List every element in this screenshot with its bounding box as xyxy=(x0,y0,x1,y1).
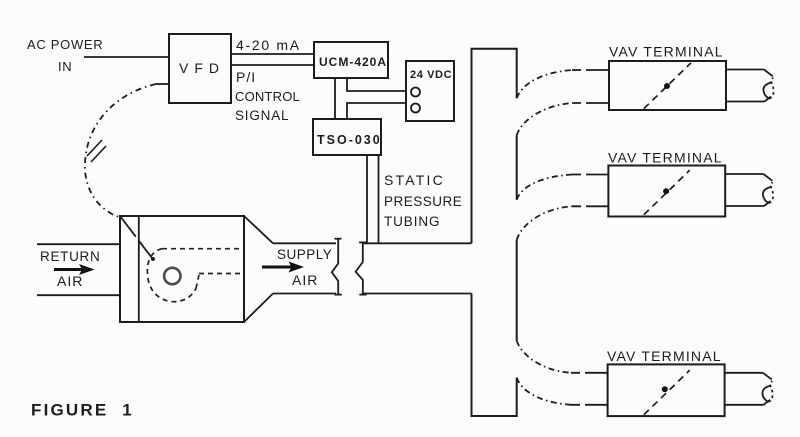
UCM-420A unit control module xyxy=(314,42,388,78)
dashed drive shaft line into air handler xyxy=(120,216,152,258)
VAV terminal 1 damper xyxy=(644,63,691,109)
svg-text:VAV TERMINAL: VAV TERMINAL xyxy=(609,44,724,60)
VAV terminal 2 outlet duct xyxy=(725,174,773,206)
svg-text:TSO-030: TSO-030 xyxy=(317,133,382,147)
svg-text:VAV TERMINAL: VAV TERMINAL xyxy=(607,348,722,364)
label: SUPPLY AIR xyxy=(277,247,332,288)
VAV terminal 3 outlet duct xyxy=(725,373,773,405)
svg-text:RETURN: RETURN xyxy=(40,249,100,264)
branch duct 2 bottom curve xyxy=(517,206,609,240)
wire: VFD to UCM 4-20 mA signal xyxy=(231,53,314,55)
wire: VFD control stub xyxy=(156,83,169,85)
svg-text:PRESSURE: PRESSURE xyxy=(384,194,462,209)
svg-text:CONTROL: CONTROL xyxy=(235,89,300,104)
return air duct top line xyxy=(37,243,120,245)
label: STATIC PRESSURE TUBING xyxy=(384,172,462,229)
svg-text:24 VDC: 24 VDC xyxy=(410,69,452,81)
VAV terminal 3 damper xyxy=(644,370,690,415)
branch duct 3 bottom curve xyxy=(517,378,608,405)
label: P/I CONTROL SIGNAL xyxy=(235,69,300,123)
branch duct 2 top curve xyxy=(517,175,609,200)
TSO-030 pressure transducer xyxy=(313,119,382,155)
main supply trunk duct xyxy=(472,49,517,416)
return air duct bottom line xyxy=(37,294,120,296)
transition bottom slant xyxy=(244,294,273,323)
terminal circle 2 of 24VDC xyxy=(411,104,420,113)
static pressure tube 1 xyxy=(366,155,368,243)
svg-text:FIGURE 1: FIGURE 1 xyxy=(31,401,134,420)
VAV terminal 1 box xyxy=(609,61,726,110)
svg-text:STATIC: STATIC xyxy=(384,172,445,188)
label: RETURN AIR xyxy=(40,249,100,289)
VAV terminal 3 box xyxy=(608,364,725,416)
svg-text:P/I: P/I xyxy=(236,69,256,85)
supply air arrow xyxy=(262,262,304,273)
wire: VFD to UCM lower conductor xyxy=(231,64,314,66)
dashed control arc VFD to fan xyxy=(85,84,156,217)
supply duct right section to trunk xyxy=(363,243,472,293)
fan hub circle xyxy=(164,268,180,284)
svg-text:4-20 mA: 4-20 mA xyxy=(236,37,301,53)
svg-text:UCM-420A: UCM-420A xyxy=(319,55,387,69)
svg-text:AIR: AIR xyxy=(292,272,318,288)
static pressure tube 2 xyxy=(378,155,380,243)
VFD variable frequency drive xyxy=(169,34,231,103)
svg-text:VAV TERMINAL: VAV TERMINAL xyxy=(608,150,723,166)
wire: AC power line to VFD xyxy=(84,56,169,58)
svg-text:SIGNAL: SIGNAL xyxy=(235,108,289,123)
branch duct 1 top curve xyxy=(517,70,609,98)
VAV terminal 2 damper xyxy=(644,170,690,215)
supply duct left section xyxy=(273,243,336,293)
wire: UCM to 24VDC upper xyxy=(347,78,406,91)
break ticks on arc xyxy=(87,140,106,162)
branch duct 1 bottom curve xyxy=(517,103,609,135)
terminal circle 1 of 24VDC xyxy=(411,88,420,97)
svg-text:VFD: VFD xyxy=(179,60,225,76)
wire: UCM to TSO xyxy=(334,78,336,119)
duct break right xyxy=(356,242,367,294)
svg-text:AC POWER: AC POWER xyxy=(27,37,103,52)
VAV terminal 1 outlet duct xyxy=(726,70,774,102)
svg-text:TUBING: TUBING xyxy=(384,214,440,229)
return air arrow xyxy=(54,264,95,275)
filter divider line xyxy=(138,216,140,322)
label: AC POWER IN xyxy=(27,37,103,74)
svg-text:IN: IN xyxy=(58,59,72,74)
svg-text:AIR: AIR xyxy=(57,273,83,289)
24 VDC power supply xyxy=(406,61,454,121)
branch duct 3 top curve xyxy=(517,341,608,373)
air handler cabinet xyxy=(120,216,244,322)
fan scroll dashed outline xyxy=(147,249,244,302)
transition top slant xyxy=(244,216,273,243)
dot at end of drive line xyxy=(151,257,155,261)
duct break left xyxy=(332,239,342,295)
VAV terminal 2 box xyxy=(608,166,725,217)
wire: TSO to 24VDC lower xyxy=(347,103,406,119)
svg-text:SUPPLY: SUPPLY xyxy=(277,247,332,262)
